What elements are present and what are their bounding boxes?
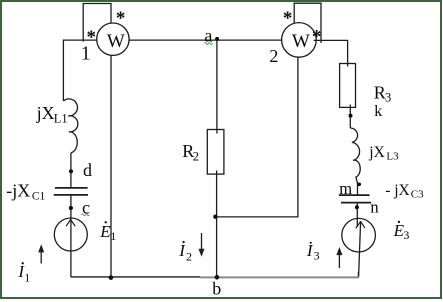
- svg-text:-jX: -jX: [6, 180, 30, 200]
- svg-text:W: W: [107, 31, 125, 52]
- svg-text:2: 2: [193, 150, 199, 164]
- svg-text:k: k: [374, 103, 382, 120]
- svg-text:C1: C1: [32, 191, 46, 203]
- svg-text:d: d: [83, 160, 92, 180]
- svg-text:3: 3: [403, 228, 409, 242]
- svg-text:2: 2: [269, 46, 278, 66]
- svg-text:c: c: [82, 197, 90, 217]
- svg-text:1: 1: [24, 270, 30, 284]
- svg-text:2: 2: [186, 250, 192, 264]
- svg-text:W: W: [292, 31, 310, 52]
- svg-text:*: *: [116, 8, 126, 29]
- svg-text:*: *: [312, 27, 322, 48]
- svg-text:jX: jX: [36, 103, 55, 123]
- svg-text:m: m: [339, 179, 352, 198]
- svg-text:- jX: - jX: [385, 182, 410, 199]
- svg-text:3: 3: [314, 249, 320, 263]
- svg-text:1: 1: [81, 44, 91, 65]
- svg-text:R: R: [374, 83, 386, 103]
- svg-text:*: *: [283, 8, 293, 29]
- svg-text:1: 1: [110, 229, 116, 243]
- svg-text:n: n: [370, 198, 378, 217]
- svg-text:b: b: [212, 278, 221, 298]
- svg-text:L3: L3: [386, 151, 399, 163]
- svg-text:a: a: [204, 25, 212, 45]
- svg-text:3: 3: [385, 90, 391, 104]
- svg-text:jX: jX: [368, 144, 385, 161]
- svg-text:L1: L1: [54, 111, 68, 125]
- svg-text:C3: C3: [411, 189, 424, 201]
